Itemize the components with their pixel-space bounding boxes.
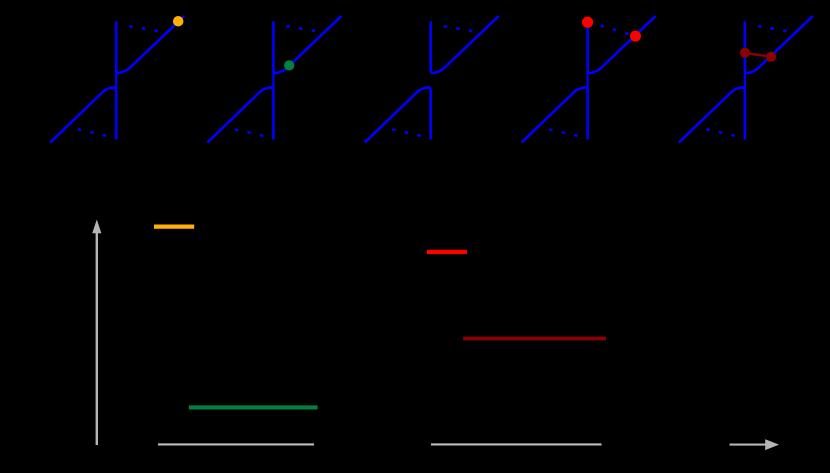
x axis arrowhead bbox=[765, 439, 779, 450]
panel 3 upper dotted guide bbox=[444, 26, 476, 31]
panel 5 vertical diabatic line bbox=[744, 22, 746, 140]
panel 1 upper adiabatic branch bbox=[116, 16, 184, 73]
panel 2 vertical diabatic line bbox=[272, 22, 274, 140]
panel 2 lower adiabatic branch bbox=[207, 87, 273, 142]
panel 5: band crossing diagram bbox=[679, 16, 813, 143]
panel 3 lower adiabatic branch bbox=[365, 87, 431, 142]
x axis arrow shaft bbox=[730, 444, 767, 446]
energy axis (y) shaft bbox=[96, 232, 98, 446]
x axis segment 1 bbox=[158, 443, 314, 445]
panel 1 lower adiabatic branch bbox=[50, 87, 116, 142]
panel 5 upper adiabatic branch bbox=[745, 16, 813, 73]
panel 2: band crossing diagram bbox=[207, 16, 341, 143]
panel 2 upper dotted guide bbox=[286, 26, 318, 31]
panel 4 red marker dot on vertical line top bbox=[582, 17, 593, 28]
energy axis (y) arrowhead bbox=[92, 220, 101, 234]
orange energy level bbox=[154, 225, 194, 229]
panel 2 upper adiabatic branch bbox=[273, 16, 341, 73]
panel 4 vertical diabatic line bbox=[586, 22, 588, 140]
green energy level bbox=[189, 405, 318, 409]
panel 5 upper dotted guide bbox=[758, 26, 790, 31]
panel 4: band crossing diagram bbox=[522, 16, 656, 143]
panel 4 upper dotted guide bbox=[601, 26, 633, 35]
darkred energy level bbox=[463, 337, 606, 341]
panel 4 lower dotted guide bbox=[549, 129, 579, 136]
panel 3 upper adiabatic branch bbox=[431, 16, 499, 73]
panel 1 upper dotted guide bbox=[129, 26, 161, 31]
panel 4 red marker dot on diagonal branch bbox=[630, 31, 641, 42]
panel 2 green marker dot bbox=[284, 60, 294, 70]
panel 4 upper adiabatic branch bbox=[588, 16, 656, 73]
panel 5 darkred connector line between dots bbox=[745, 53, 771, 57]
red energy level bbox=[427, 250, 467, 254]
panel 1 orange marker dot bbox=[173, 16, 184, 27]
panel 1 lower dotted guide bbox=[78, 129, 108, 136]
panel 5 lower dotted guide bbox=[706, 129, 736, 136]
panel 3 lower dotted guide bbox=[392, 129, 422, 136]
panel 1 vertical diabatic line bbox=[115, 22, 117, 140]
panel 5 darkred marker dot on diagonal branch bbox=[766, 52, 776, 62]
panel 5 lower adiabatic branch bbox=[679, 87, 745, 142]
panel 2 lower dotted guide bbox=[235, 129, 265, 136]
panel 4 lower adiabatic branch bbox=[522, 87, 588, 142]
panel 5 darkred marker dot on vertical line bbox=[740, 48, 750, 58]
panel 3: avoided crossing (gap open) diagram bbox=[365, 16, 499, 143]
x axis segment 2 bbox=[431, 443, 602, 445]
panel 1: band crossing diagram bbox=[50, 16, 184, 143]
